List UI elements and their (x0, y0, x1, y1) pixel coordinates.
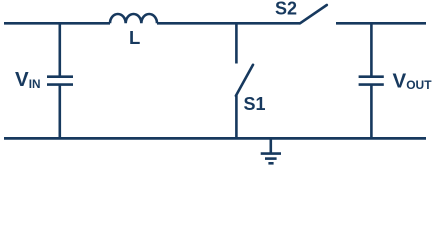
ground (261, 138, 281, 163)
wire output rail lower (370, 85, 373, 139)
switch S2 blade (300, 5, 327, 23)
capacitor C_OUT (359, 77, 384, 85)
wire switch rail lower (235, 95, 238, 138)
wire switch rail upper (235, 23, 238, 63)
inductor L (110, 14, 157, 23)
wire top rail middle segment (157, 22, 300, 25)
svg-text:S2: S2 (275, 0, 297, 19)
svg-text:L: L (129, 27, 140, 48)
wire top rail right segment (336, 22, 426, 25)
svg-text:VIN: VIN (15, 68, 41, 91)
wire input rail lower (58, 85, 61, 139)
svg-text:S1: S1 (243, 94, 265, 114)
wire top rail left segment (4, 22, 110, 25)
svg-text:VOUT: VOUT (393, 70, 433, 93)
switch S1 blade (236, 65, 253, 96)
wire input rail upper (58, 23, 61, 76)
wire bottom rail (4, 137, 426, 140)
capacitor C_IN (47, 77, 73, 85)
wire output rail upper (370, 23, 373, 76)
